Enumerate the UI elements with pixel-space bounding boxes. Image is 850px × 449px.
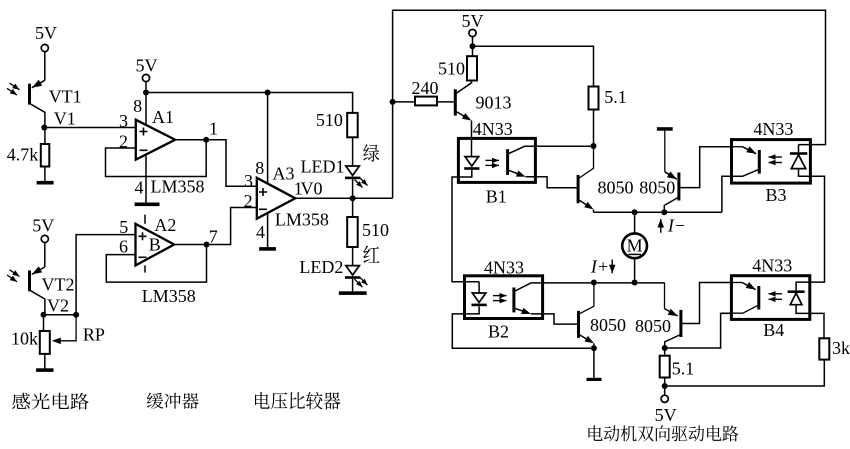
resistor 510 (9013 collector) bbox=[467, 56, 477, 80]
svg-text:5.1: 5.1 bbox=[672, 359, 695, 379]
op-amp A3 bbox=[257, 178, 296, 219]
svg-text:6: 6 bbox=[119, 237, 128, 257]
wire V2 to RP junction bbox=[44, 314, 77, 316]
transistor 8050 (upper right) bbox=[664, 131, 666, 172]
svg-text:5V: 5V bbox=[32, 216, 54, 236]
node 240 branch bbox=[390, 99, 396, 105]
wire A1 pin4 to ground bbox=[145, 154, 147, 202]
svg-text:B4: B4 bbox=[763, 320, 784, 340]
svg-text:3: 3 bbox=[244, 171, 253, 191]
node V2 bbox=[41, 312, 47, 318]
optocoupler B1 box bbox=[458, 138, 535, 182]
op-amp A2 bbox=[136, 224, 175, 266]
wire 5V to VT1 collector bbox=[44, 52, 46, 81]
svg-text:4: 4 bbox=[135, 178, 144, 198]
svg-text:8050: 8050 bbox=[590, 315, 626, 335]
optocoupler B3 LED bbox=[798, 145, 800, 153]
svg-text:5V: 5V bbox=[136, 56, 158, 76]
wire A2 output to A3 pin2 bbox=[174, 208, 257, 245]
wire A3 pin4 to ground bbox=[267, 213, 269, 248]
svg-text:A3: A3 bbox=[273, 164, 295, 184]
wire A2 feedback (output to pin6) bbox=[106, 245, 206, 283]
node 5V driver bbox=[470, 43, 476, 49]
optocoupler B4 box bbox=[731, 276, 809, 320]
wire V0 to 510 (LED2) bbox=[352, 198, 354, 217]
node V1 bbox=[41, 125, 47, 131]
ground (A3 pin 4) bbox=[259, 247, 276, 251]
svg-text:1: 1 bbox=[209, 118, 218, 138]
optocoupler B1 light arrows bbox=[486, 159, 500, 161]
svg-text:10k: 10k bbox=[11, 328, 38, 348]
svg-text:V1: V1 bbox=[54, 109, 76, 129]
svg-text:LED2: LED2 bbox=[299, 257, 343, 277]
svg-text:8050: 8050 bbox=[639, 178, 675, 198]
svg-text:I−: I− bbox=[667, 216, 686, 236]
optocoupler B2 box bbox=[465, 276, 543, 319]
svg-text:5V: 5V bbox=[35, 23, 57, 43]
svg-text:4N33: 4N33 bbox=[753, 119, 793, 139]
ground (below LED2) bbox=[339, 291, 367, 295]
svg-text:RP: RP bbox=[83, 324, 105, 344]
resistor 4.7k bbox=[41, 144, 50, 167]
node A1 supply branch bbox=[143, 90, 149, 96]
wire A1 output to A3 pin3 bbox=[175, 140, 257, 187]
svg-text:5V: 5V bbox=[462, 11, 484, 31]
node motor bottom rail left bbox=[591, 280, 597, 286]
pin stub A2 top bbox=[144, 215, 146, 224]
node lower-right 8050 collector bbox=[662, 345, 668, 351]
wire LED1 to V0 node bbox=[352, 179, 354, 198]
svg-text:510: 510 bbox=[362, 220, 389, 240]
motor M bbox=[634, 212, 636, 233]
node V0 junction bbox=[350, 195, 356, 201]
svg-text:3k: 3k bbox=[832, 338, 850, 358]
transistor 8050 (lower left) bbox=[580, 283, 594, 314]
svg-text:510: 510 bbox=[316, 110, 343, 130]
svg-text:4: 4 bbox=[256, 222, 265, 242]
wire supply to A3 pin8 bbox=[267, 93, 269, 185]
resistor 510 (LED1) bbox=[347, 113, 358, 137]
svg-text:A1: A1 bbox=[152, 107, 174, 127]
resistor 5.1 (lower) bbox=[664, 348, 666, 356]
transistor 8050 (lower right) bbox=[664, 283, 666, 309]
wire V1 to A1 pin3 bbox=[44, 127, 136, 129]
svg-text:LM358: LM358 bbox=[275, 209, 329, 229]
svg-text:M: M bbox=[627, 236, 643, 256]
svg-text:LED1: LED1 bbox=[301, 156, 345, 176]
wire 9013 emitter to B1 LED bbox=[471, 121, 473, 139]
optocoupler B2 light arrows bbox=[493, 295, 507, 297]
svg-text:510: 510 bbox=[438, 59, 465, 79]
svg-text:5: 5 bbox=[119, 217, 128, 237]
wire 5.1 to collector node bbox=[593, 110, 595, 147]
node RP wiper junction bbox=[73, 312, 79, 318]
wire 510 to LED2 bbox=[352, 247, 354, 266]
svg-text:8050: 8050 bbox=[635, 316, 671, 336]
transistor 8050 (upper left) bbox=[579, 146, 593, 178]
ground (A1 pin 4) bbox=[135, 203, 160, 207]
label 绿 bbox=[363, 144, 379, 162]
svg-text:B: B bbox=[149, 234, 161, 254]
optocoupler B1 phototransistor bbox=[506, 149, 509, 175]
node motor top bbox=[632, 209, 638, 215]
phototransistor VT1 bbox=[32, 80, 45, 87]
ground (below 10k) bbox=[36, 368, 53, 372]
svg-text:V2: V2 bbox=[47, 296, 69, 316]
svg-text:LM358: LM358 bbox=[142, 286, 196, 306]
wire 4.7k to ground bbox=[44, 167, 46, 182]
wire 5.1 to 5V node bbox=[664, 378, 666, 396]
wire A1 feedback (output to pin2) bbox=[106, 140, 207, 177]
node A2 output bbox=[204, 242, 210, 248]
optocoupler B4 LED bbox=[788, 290, 805, 293]
wire node to 240 bbox=[393, 101, 415, 103]
svg-text:5V: 5V bbox=[655, 405, 677, 425]
wire 5V to A1 pin8 bbox=[145, 82, 147, 126]
node motor bottom bbox=[632, 280, 638, 286]
wire 240 to 9013 base bbox=[437, 101, 454, 103]
potentiometer RP 10k bbox=[40, 331, 50, 354]
bar terminal (upper right 8050 collector) bbox=[657, 127, 673, 131]
svg-text:LM358: LM358 bbox=[151, 177, 205, 197]
svg-text:9013: 9013 bbox=[476, 93, 512, 113]
optocoupler B4 phototransistor bbox=[731, 282, 742, 284]
svg-text:A2: A2 bbox=[154, 215, 176, 235]
node upper-right 8050 emitter bbox=[661, 209, 667, 215]
svg-text:5.1: 5.1 bbox=[604, 87, 627, 107]
svg-text:3: 3 bbox=[119, 111, 128, 131]
wire LED2 to ground bbox=[352, 279, 354, 292]
optocoupler B2 phototransistor bbox=[512, 288, 515, 313]
wire V1 to resistor 4.7k bbox=[44, 128, 46, 145]
wire V0 riser / top rail to B3 LED bbox=[393, 10, 826, 198]
resistor 3k bbox=[819, 338, 829, 359]
op-amp A1 bbox=[136, 120, 175, 160]
svg-text:240: 240 bbox=[412, 78, 439, 98]
wire 10k to ground bbox=[44, 354, 46, 369]
node A3 pin8 branch bbox=[265, 90, 271, 96]
wire 510 to LED1 bbox=[352, 137, 354, 166]
svg-text:B2: B2 bbox=[488, 322, 509, 342]
resistor 510 (LED2) bbox=[347, 217, 358, 247]
pin stub A2 bottom bbox=[144, 265, 146, 272]
resistor 5.1 (upper) bbox=[589, 87, 599, 110]
wire 5V node to 5.1 resistor bbox=[473, 46, 594, 86]
node lower-left 8050 emitter / B2 return bbox=[591, 345, 597, 351]
svg-text:8: 8 bbox=[133, 96, 142, 116]
svg-text:VT1: VT1 bbox=[49, 87, 82, 107]
wire motor top rail bbox=[594, 211, 722, 213]
wire 5V to VT2 bbox=[44, 243, 46, 268]
transistor 9013 bbox=[454, 89, 457, 115]
wire A3 output V0 bbox=[295, 197, 392, 199]
wire V2 junction to A2 pin5 bbox=[76, 235, 135, 315]
label 电压比较器 bbox=[255, 392, 340, 410]
svg-text:4N33: 4N33 bbox=[484, 257, 524, 277]
svg-text:8050: 8050 bbox=[598, 178, 634, 198]
svg-text:B3: B3 bbox=[765, 185, 786, 205]
svg-text:4.7k: 4.7k bbox=[7, 145, 39, 165]
optocoupler B4 light arrows bbox=[769, 293, 783, 295]
optocoupler B3 phototransistor bbox=[732, 146, 743, 148]
node B1 collector junction bbox=[591, 143, 597, 149]
optocoupler B1 LED bbox=[471, 138, 473, 156]
wire supply node to 510 resistor (LED1 branch) bbox=[146, 93, 353, 113]
wire 5V to node bbox=[472, 37, 474, 57]
svg-text:7: 7 bbox=[209, 226, 218, 246]
ground (lower left 8050) bbox=[587, 378, 602, 381]
label 电动机双向驱动电路 bbox=[588, 425, 738, 441]
svg-text:I+: I+ bbox=[590, 257, 609, 277]
svg-text:2: 2 bbox=[244, 191, 253, 211]
svg-text:V0: V0 bbox=[301, 179, 323, 199]
phototransistor VT2 bbox=[32, 267, 45, 274]
wire collector node to B4 emitter bbox=[665, 313, 732, 348]
svg-text:4N33: 4N33 bbox=[752, 256, 792, 276]
optocoupler B3 box bbox=[732, 140, 811, 184]
wire 5V node to 3k bbox=[665, 360, 825, 386]
node 5V bottom bbox=[662, 383, 668, 389]
label 感光电路 bbox=[12, 393, 89, 410]
svg-text:4N33: 4N33 bbox=[473, 119, 513, 139]
resistor 240 bbox=[415, 97, 437, 106]
current arrow I- bbox=[660, 219, 662, 233]
ground (below 4.7k) bbox=[37, 181, 54, 185]
label 红 bbox=[363, 246, 379, 263]
svg-text:B1: B1 bbox=[486, 187, 507, 207]
node A1 output bbox=[203, 137, 209, 143]
power terminal 5V (bottom) bbox=[661, 395, 668, 402]
svg-text:8: 8 bbox=[255, 158, 264, 178]
wire V2 to potentiometer 10k bbox=[43, 315, 45, 331]
svg-text:VT2: VT2 bbox=[42, 275, 75, 295]
optocoupler B2 LED bbox=[478, 282, 480, 293]
label 缓冲器 bbox=[147, 393, 199, 409]
optocoupler B3 light arrows bbox=[769, 156, 783, 158]
